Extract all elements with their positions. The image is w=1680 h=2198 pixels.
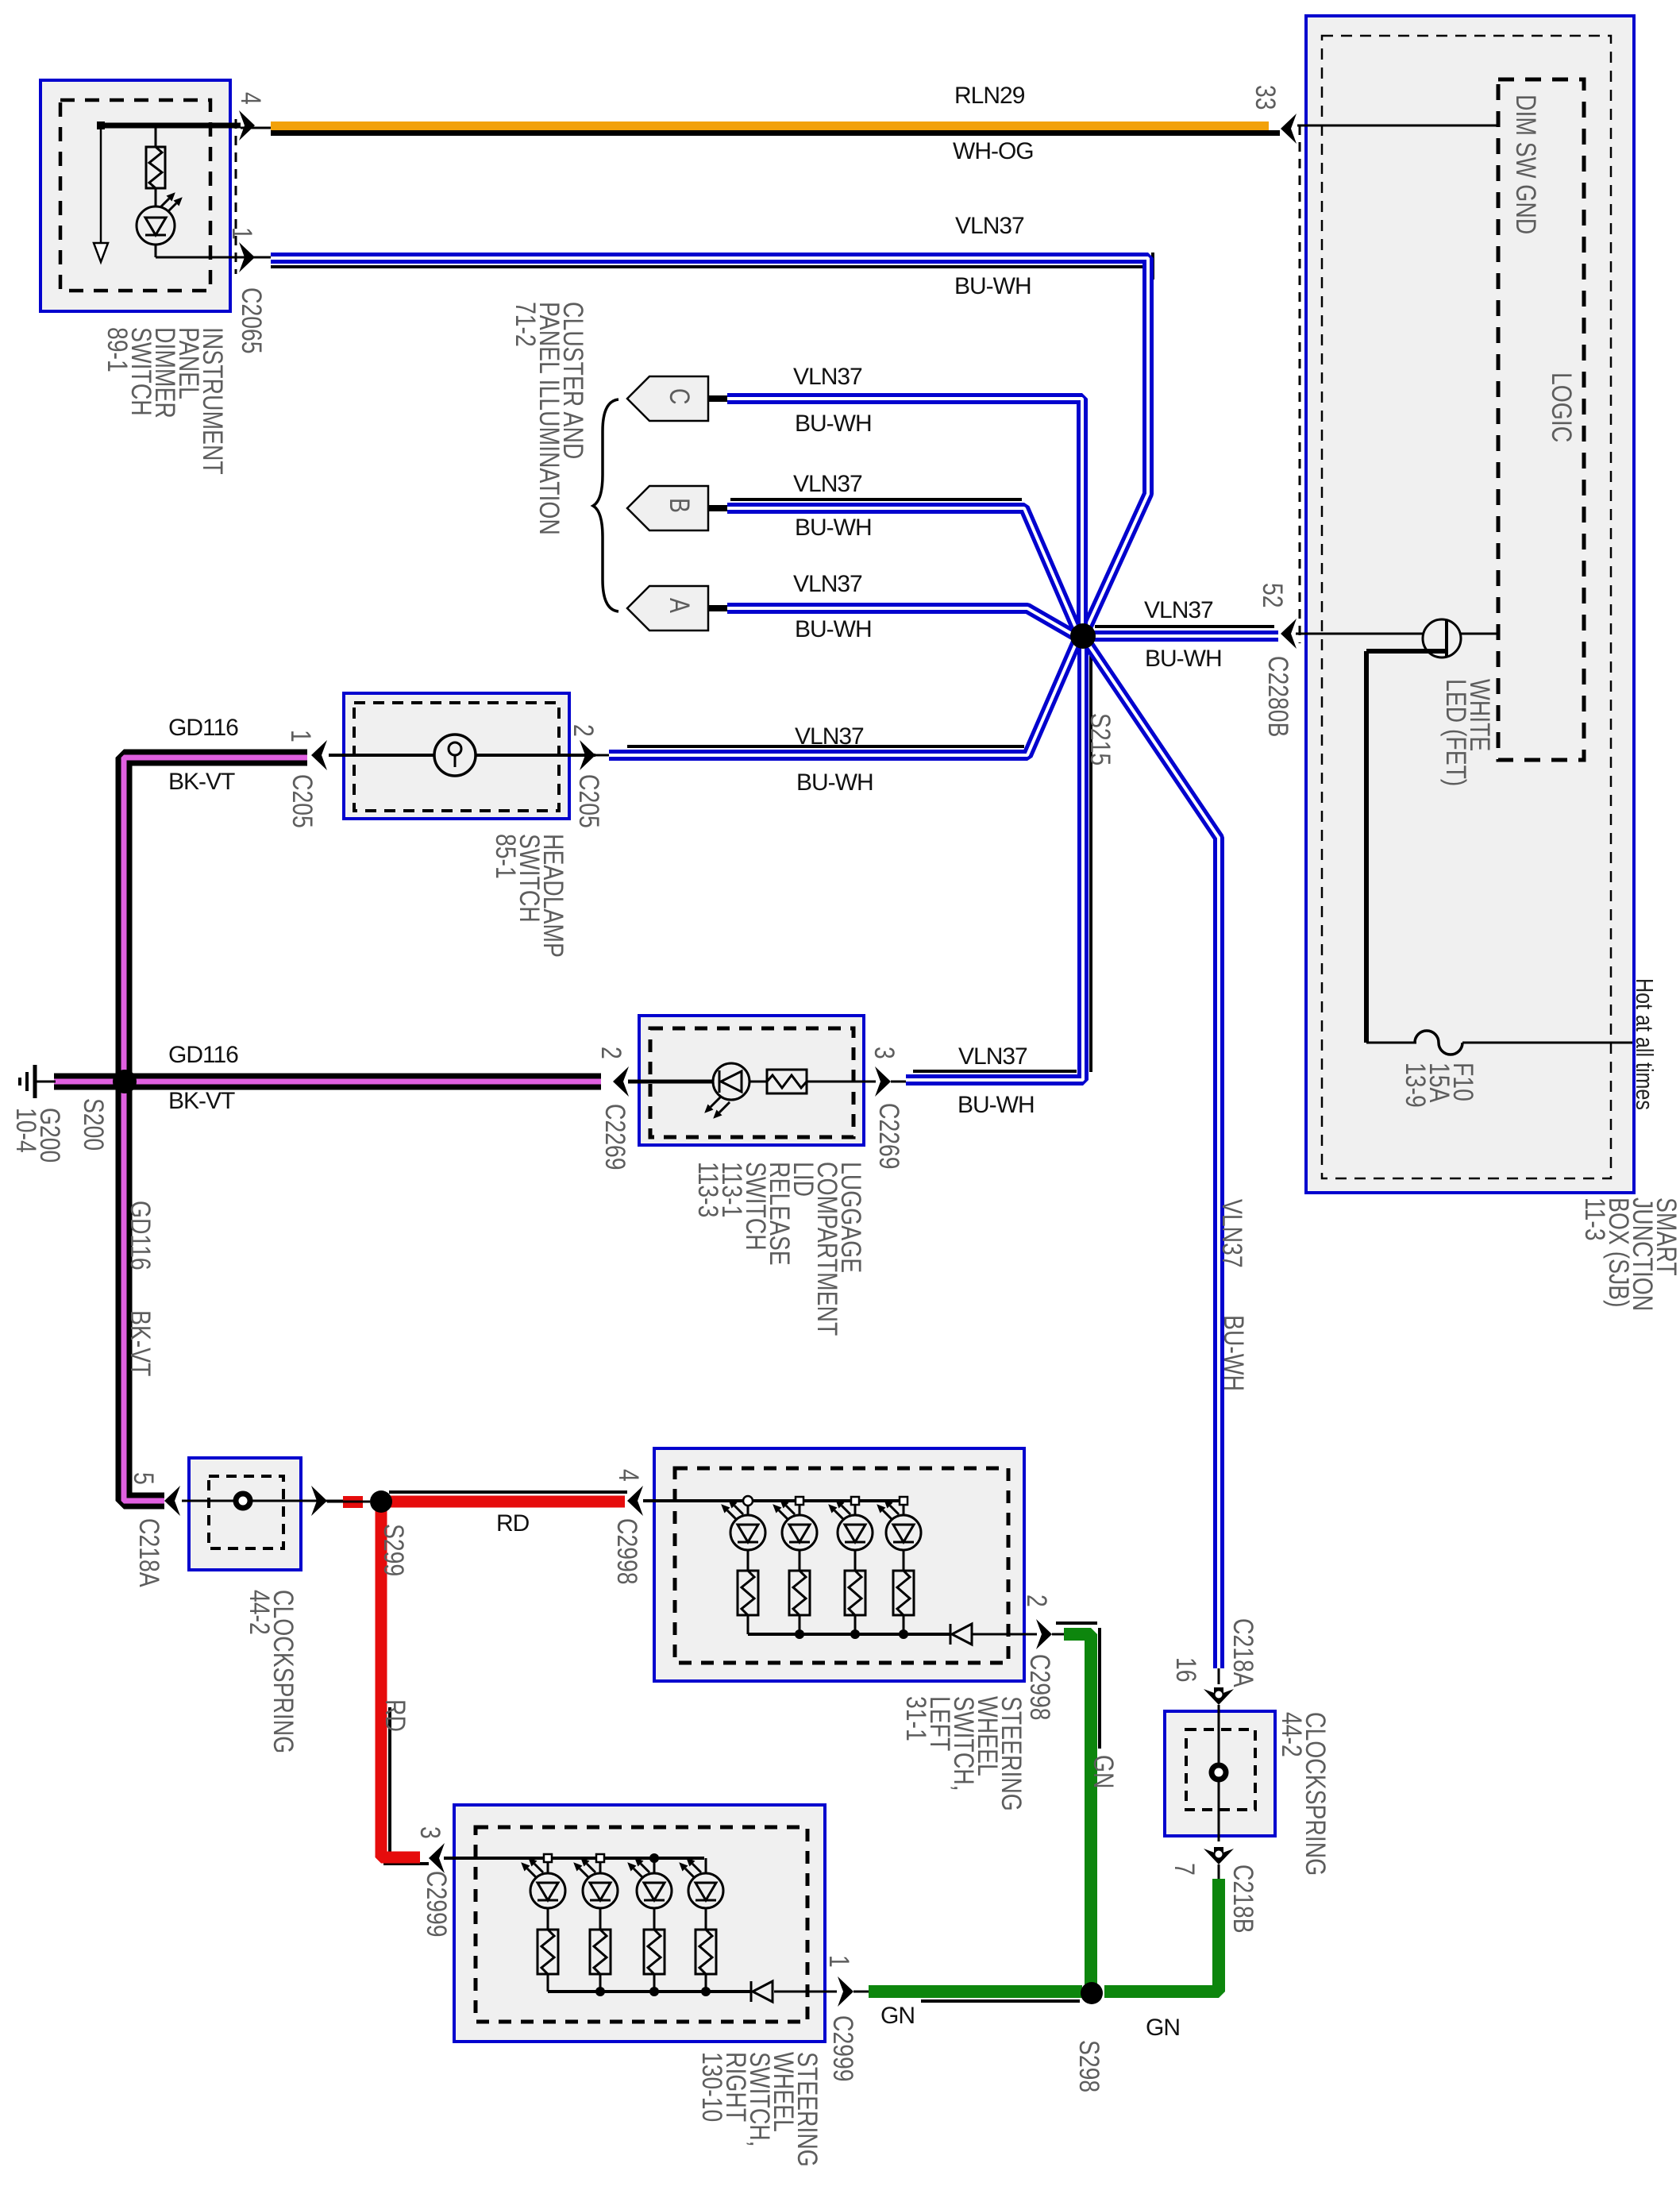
svg-text:71-2: 71-2	[510, 302, 541, 347]
wire GN steering left pin2 to S298	[1056, 1623, 1100, 1984]
wire VLN37 BU-WH connector B to S215	[727, 499, 1077, 631]
connector C2280B dashed line	[1299, 125, 1301, 643]
splice S298	[1081, 1982, 1103, 2004]
steering left resistor 2	[789, 1571, 810, 1634]
clockspring box right	[1165, 1711, 1275, 1836]
svg-text:44-2: 44-2	[1276, 1712, 1308, 1757]
headlamp bulb symbol	[434, 735, 476, 776]
svg-text:C2999: C2999	[421, 1871, 453, 1937]
svg-text:VLN37: VLN37	[1216, 1199, 1248, 1268]
steering right LED 3	[627, 1857, 672, 1930]
svg-text:BK-VT: BK-VT	[168, 1088, 235, 1114]
svg-text:1: 1	[226, 227, 258, 240]
svg-text:C2280B: C2280B	[1262, 656, 1294, 737]
svg-text:7: 7	[1169, 1863, 1200, 1876]
wire VLN37 BU-WH connector A to S215	[727, 608, 1074, 635]
luggage compartment lid release switch box	[639, 1016, 864, 1145]
svg-text:BK-VT: BK-VT	[125, 1310, 156, 1376]
steering right resistor 4	[696, 1930, 716, 1992]
dimmer switch LED	[137, 206, 175, 245]
pin 1 arrow C205	[311, 740, 327, 770]
svg-text:GN: GN	[1146, 2015, 1180, 2041]
svg-text:13-9: 13-9	[1400, 1062, 1431, 1108]
luggage switch LED symbol	[704, 1063, 749, 1119]
svg-text:DIM SW GND: DIM SW GND	[1510, 94, 1542, 234]
pin 5 arrow C218A	[164, 1486, 180, 1516]
steering left LED 2	[773, 1499, 817, 1571]
clockspring left coil symbol	[236, 1494, 250, 1508]
wire VLN37 BU-WH S215 to clockspring C218A	[1089, 646, 1219, 1668]
svg-text:5: 5	[128, 1472, 160, 1485]
svg-text:VLN37: VLN37	[958, 1043, 1027, 1070]
connector C2065 dashed line	[235, 119, 237, 274]
dimmer pin1 internal wire	[156, 245, 238, 257]
steering right LED 2	[573, 1857, 618, 1930]
splice S299	[370, 1490, 392, 1513]
svg-text:GN: GN	[1088, 1755, 1119, 1789]
wire RD S299 to steering wheel switch right	[381, 1507, 429, 1864]
steering left LED 1	[721, 1499, 765, 1571]
pin 3 arrow C2269	[875, 1066, 891, 1097]
wire RLN29 WH-OG orange	[271, 121, 1280, 136]
clockspring left internal wire	[182, 1500, 343, 1502]
headlamp switch box	[344, 693, 569, 819]
svg-text:Hot at all times: Hot at all times	[1631, 978, 1659, 1110]
wire RD clockspring stub	[343, 1496, 363, 1508]
svg-text:2: 2	[595, 1047, 627, 1059]
svg-text:S200: S200	[78, 1098, 110, 1151]
svg-text:C2269: C2269	[599, 1104, 631, 1170]
steering wheel switch right box	[454, 1805, 825, 2042]
steering right bus nodes	[544, 1853, 711, 1996]
svg-text:VLN37: VLN37	[795, 723, 864, 750]
dimmer switch internals	[97, 121, 165, 206]
pin 3 arrow C2999	[429, 1843, 445, 1873]
svg-text:16: 16	[1170, 1657, 1202, 1683]
steering left LED 4	[877, 1499, 921, 1571]
steering wheel switch left box	[654, 1448, 1024, 1681]
svg-text:2: 2	[568, 724, 599, 737]
steering wheel switch right internal bus	[444, 1858, 869, 1992]
svg-text:1: 1	[285, 730, 317, 742]
svg-text:BU-WH: BU-WH	[1145, 646, 1222, 672]
wire RD S299 to steering wheel switch left	[389, 1492, 627, 1502]
svg-text:89-1: 89-1	[102, 327, 133, 372]
svg-text:C205: C205	[287, 774, 318, 828]
steering left resistor 1	[738, 1571, 758, 1634]
svg-text:C: C	[664, 388, 696, 404]
wire VLN37 BU-WH S215 to luggage switch	[906, 636, 1091, 1080]
svg-text:C218A: C218A	[133, 1518, 165, 1587]
cluster illumination connector B	[627, 486, 727, 530]
svg-text:GD116: GD116	[125, 1201, 156, 1271]
svg-text:4: 4	[613, 1469, 645, 1482]
svg-text:S298: S298	[1073, 2040, 1105, 2092]
svg-text:GD116: GD116	[168, 1042, 238, 1068]
svg-text:B: B	[664, 498, 696, 513]
splice S200	[113, 1070, 137, 1093]
wire GD116 BK-VT ground to luggage switch	[54, 1074, 601, 1090]
wire GN S298 to clockspring pin7	[1104, 1879, 1219, 1992]
svg-text:RLN29: RLN29	[954, 83, 1025, 109]
svg-text:BU-WH: BU-WH	[795, 616, 872, 642]
svg-text:BU-WH: BU-WH	[796, 769, 873, 796]
pin 52 arrow SJB	[1281, 619, 1423, 649]
svg-text:11-3: 11-3	[1579, 1197, 1611, 1241]
svg-text:BU-WH: BU-WH	[795, 411, 872, 437]
clockspring right internal wire	[1218, 1668, 1220, 1879]
pin 1 arrow C2065	[239, 242, 255, 272]
cluster illumination connector C	[627, 376, 727, 421]
dimmer switch pin 4 wire	[101, 125, 271, 128]
pin 7 arrow C218B	[1204, 1849, 1234, 1864]
pin 2 arrow C2269	[613, 1066, 629, 1097]
steering right resistor 1	[538, 1930, 558, 1992]
steering right LED 4	[679, 1857, 723, 1930]
svg-text:VLN37: VLN37	[793, 571, 862, 597]
svg-text:VLN37: VLN37	[955, 213, 1024, 239]
svg-text:44-2: 44-2	[244, 1590, 276, 1635]
ground G200 symbol	[20, 1065, 56, 1098]
svg-text:10-4: 10-4	[10, 1108, 42, 1153]
luggage switch internal wire	[628, 1080, 906, 1084]
svg-text:C218B: C218B	[1227, 1864, 1259, 1934]
pin 1 arrow C2999	[838, 1976, 853, 2007]
steering wheel switch left internal bus	[643, 1501, 1064, 1634]
svg-text:1: 1	[823, 1955, 855, 1968]
steering left LED 3	[828, 1499, 873, 1571]
svg-text:C2999: C2999	[827, 2015, 859, 2081]
svg-text:52: 52	[1257, 583, 1289, 608]
svg-text:130-10: 130-10	[696, 2052, 728, 2122]
dimmer wiper arrow	[94, 129, 108, 262]
SJB white LED FET symbol	[1366, 619, 1498, 1043]
clockspring right coil symbol	[1212, 1765, 1226, 1780]
steering left resistor 3	[845, 1571, 865, 1634]
cluster brace	[593, 399, 618, 611]
svg-text:A: A	[664, 598, 696, 614]
svg-text:3: 3	[414, 1826, 446, 1839]
svg-text:4: 4	[235, 92, 267, 105]
svg-text:VLN37: VLN37	[793, 471, 862, 497]
svg-text:C218A: C218A	[1227, 1618, 1259, 1687]
SJB logic dashed box	[1498, 79, 1584, 760]
svg-text:S215: S215	[1085, 713, 1116, 765]
wire GD116 BK-VT headlamp to S200 to clockspring	[124, 758, 307, 1501]
steering left resistor 4	[893, 1571, 914, 1634]
svg-text:BU-WH: BU-WH	[954, 273, 1031, 299]
luggage switch resistor	[767, 1070, 807, 1093]
wire GN steering right pin1 to S298	[869, 1992, 1082, 2001]
svg-text:C205: C205	[573, 774, 605, 828]
svg-text:VLN37: VLN37	[1144, 597, 1213, 623]
svg-text:33: 33	[1250, 85, 1281, 110]
steering left diode	[950, 1624, 972, 1645]
pin 2 arrow C205	[580, 740, 595, 770]
svg-text:BU-WH: BU-WH	[1218, 1315, 1250, 1391]
svg-text:31-1: 31-1	[900, 1696, 932, 1741]
SJB fuse F10	[1366, 1031, 1632, 1055]
svg-text:RD: RD	[380, 1699, 411, 1732]
dimmer pin 1 line	[238, 256, 271, 259]
wire VLN37 BU-WH dimmer pin1 to S215	[271, 253, 1153, 631]
svg-text:GD116: GD116	[168, 715, 238, 741]
pin 4 arrow C218B	[311, 1486, 327, 1516]
smart junction box SJB	[1306, 16, 1634, 1193]
svg-text:85-1: 85-1	[490, 834, 522, 879]
pin 4 arrow C2065	[239, 110, 255, 141]
svg-text:113-3: 113-3	[692, 1162, 724, 1217]
steering right resistor 2	[590, 1930, 611, 1992]
pin 2 arrow C2998	[1036, 1619, 1052, 1649]
clockspring box left	[189, 1458, 301, 1570]
svg-text:BK-VT: BK-VT	[168, 769, 235, 795]
svg-text:3: 3	[869, 1047, 900, 1059]
pin 33 arrow SJB	[1281, 114, 1498, 144]
svg-text:WH-OG: WH-OG	[953, 138, 1034, 164]
svg-text:C2065: C2065	[236, 287, 268, 353]
pin 16 arrow C218A	[1204, 1689, 1234, 1705]
svg-text:BU-WH: BU-WH	[795, 515, 872, 541]
svg-text:LED (FET): LED (FET)	[1440, 679, 1472, 786]
svg-text:2: 2	[1021, 1595, 1053, 1607]
steering left bus nodes	[743, 1496, 908, 1639]
wire VLN37 BU-WH connector C to S215	[727, 399, 1082, 630]
wire VLN37 BU-WH S215 to SJB pin52	[1083, 627, 1278, 636]
svg-text:C2998: C2998	[611, 1518, 643, 1584]
wire VLN37 BU-WH headlamp switch to S215	[609, 640, 1077, 755]
svg-text:GN: GN	[880, 2003, 915, 2029]
steering right diode	[751, 1981, 773, 2002]
svg-text:RD: RD	[496, 1510, 530, 1537]
svg-text:C2269: C2269	[873, 1103, 905, 1169]
svg-text:S299: S299	[378, 1524, 410, 1576]
steering right resistor 3	[644, 1930, 665, 1992]
splice S215	[1070, 623, 1096, 649]
pin 4 arrow C2998	[627, 1486, 643, 1516]
svg-text:C2998: C2998	[1024, 1654, 1056, 1720]
svg-text:VLN37: VLN37	[793, 364, 862, 390]
headlamp switch internal wire	[329, 754, 609, 757]
instrument panel dimmer switch box	[40, 80, 230, 311]
svg-text:LOGIC: LOGIC	[1546, 372, 1578, 442]
pin line S299 area	[327, 1501, 370, 1503]
steering right LED 1	[521, 1857, 565, 1930]
svg-text:BU-WH: BU-WH	[958, 1092, 1035, 1118]
cluster illumination connector A	[627, 586, 727, 630]
